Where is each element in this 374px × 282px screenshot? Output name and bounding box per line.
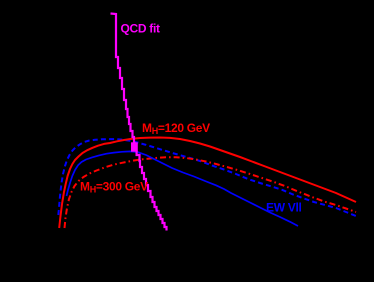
svg-text:QCD fit: QCD fit	[121, 22, 161, 36]
QCD marker square	[131, 142, 138, 151]
QCD staircase lower segment	[137, 151, 167, 231]
svg-text:EW Vll: EW Vll	[266, 201, 302, 215]
QCD staircase upper segment	[111, 14, 136, 144]
blue dashed curve (EW, M_H high)	[58, 139, 357, 216]
blue solid curve (EW)	[67, 151, 299, 226]
red solid curve M_H=120 GeV	[59, 138, 356, 229]
red dash-dot curve M_H=300 GeV	[65, 157, 357, 228]
